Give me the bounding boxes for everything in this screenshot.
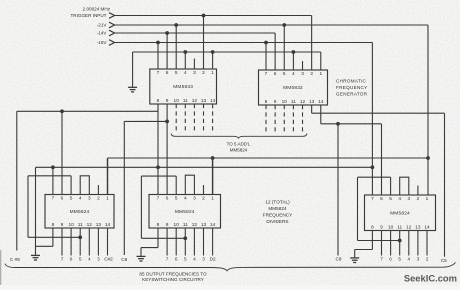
- wire U1 pin1 stub: [212, 52, 214, 69]
- wire U2 pin13 to C5 output: [311, 105, 313, 113]
- svg-text:12: 12: [406, 225, 412, 231]
- svg-text:6: 6: [380, 196, 383, 202]
- wire -16V rail: [115, 42, 373, 44]
- svg-text:6: 6: [166, 70, 169, 76]
- wire U3 pin5 loop to pin11: [70, 176, 72, 195]
- wire -14V rail: [115, 32, 276, 34]
- svg-text:9: 9: [274, 99, 277, 105]
- wire U2 pin12 dashed: [302, 105, 304, 133]
- wire U2 pin11 dashed: [292, 105, 294, 133]
- wire ground rail top: [133, 51, 321, 53]
- node U4 pin11 junction: [183, 236, 187, 240]
- wire U5 pin12 output: [408, 231, 410, 256]
- svg-text:C #8: C #8: [10, 257, 20, 262]
- wire U3 pin7 stub: [52, 167, 54, 194]
- wire -16V vertical drop to U5 pin7: [371, 43, 373, 196]
- node -21V to U1 pin5: [174, 23, 178, 27]
- svg-text:9: 9: [166, 98, 169, 104]
- svg-text:MM5824: MM5824: [268, 206, 287, 211]
- wire U5 pin11 output: [399, 231, 401, 256]
- wire U1 pin2 stub: [203, 16, 205, 70]
- svg-text:8: 8: [52, 222, 55, 228]
- wire U1 pin7 stub: [157, 43, 159, 70]
- svg-text:6: 6: [70, 256, 73, 261]
- svg-text:2: 2: [310, 71, 313, 77]
- wire U4 pin8 to ground: [157, 228, 159, 248]
- svg-text:5: 5: [398, 256, 401, 261]
- svg-text:2: 2: [202, 196, 205, 202]
- svg-text:7: 7: [157, 70, 160, 76]
- wire C8 right branch: [337, 124, 339, 256]
- svg-text:DIVIDERS: DIVIDERS: [266, 219, 288, 224]
- svg-text:12: 12: [192, 98, 198, 104]
- op-amp U4 MM5824 divider 2: [149, 195, 221, 229]
- svg-text:8: 8: [157, 98, 160, 104]
- svg-text:1: 1: [211, 70, 214, 76]
- wire gnd rail drop to ground G2: [35, 167, 37, 255]
- wire U5 pin9 output: [381, 231, 383, 256]
- svg-text:10: 10: [68, 222, 74, 228]
- wire U4 pin1 stub: [212, 158, 214, 195]
- wire U1 pin4 stub: [184, 52, 186, 69]
- svg-text:7: 7: [61, 256, 64, 261]
- wire U1 pin10 dashed: [175, 104, 177, 133]
- svg-text:4: 4: [184, 70, 187, 76]
- wire branch down to U3 pin6: [61, 111, 63, 194]
- svg-text:1: 1: [319, 71, 322, 77]
- svg-text:FREQUENCY: FREQUENCY: [263, 213, 293, 218]
- svg-text:-21V: -21V: [97, 23, 108, 28]
- node -14V to U1 pin6: [165, 31, 169, 35]
- svg-text:13: 13: [201, 222, 207, 228]
- wire U1 pin6 stub: [166, 33, 168, 69]
- svg-text:12: 12: [192, 222, 198, 228]
- svg-text:3: 3: [417, 256, 420, 261]
- wire U1 pin13 dashed: [203, 104, 205, 133]
- node rail to -21V drop: [426, 156, 430, 160]
- wire U3 pin13 output: [97, 228, 99, 256]
- svg-text:C8: C8: [336, 257, 342, 262]
- svg-text:11: 11: [183, 222, 188, 228]
- svg-text:7: 7: [380, 256, 383, 261]
- svg-text:4: 4: [292, 71, 295, 77]
- wire U2 pin10 dashed: [283, 105, 285, 133]
- svg-text:1: 1: [426, 196, 429, 202]
- svg-text:3: 3: [193, 70, 196, 76]
- op-amp U2 MM5832 chromatic generator: [259, 70, 328, 105]
- ground G2: [31, 254, 40, 256]
- svg-text:MM5824: MM5824: [175, 209, 195, 215]
- svg-text:2: 2: [426, 256, 429, 261]
- wire U4 pin14 output: [212, 228, 214, 256]
- svg-text:C#2: C#2: [104, 256, 113, 261]
- svg-text:6: 6: [389, 256, 392, 261]
- svg-text:4: 4: [193, 256, 196, 261]
- svg-text:12: 12: [87, 222, 93, 228]
- svg-text:10: 10: [174, 222, 180, 228]
- svg-text:FREQUENCY: FREQUENCY: [336, 85, 368, 90]
- wire U3 pin2 stub: [97, 185, 99, 195]
- wire ground rail bottom: [36, 166, 373, 168]
- wire TRIGGER rail: [115, 15, 312, 17]
- svg-text:8: 8: [265, 99, 268, 105]
- wire U3 pin12 output: [88, 228, 90, 256]
- svg-text:5: 5: [175, 196, 178, 202]
- node TRIGGER to U1 pin2: [202, 14, 206, 18]
- svg-text:SeekIC.com: SeekIC.com: [404, 273, 457, 284]
- svg-text:MM5832: MM5832: [283, 85, 303, 91]
- svg-text:MM5824: MM5824: [230, 148, 248, 153]
- wire U2 pin9 dashed: [274, 105, 276, 133]
- wire U4 pin4-pin3 jumper: [185, 175, 194, 194]
- ground G1: [132, 52, 134, 87]
- svg-text:CHROMATIC: CHROMATIC: [336, 79, 367, 84]
- svg-text:6: 6: [166, 196, 169, 202]
- svg-text:10: 10: [282, 99, 288, 105]
- node gnd to U1 pin4: [183, 50, 187, 54]
- svg-text:14: 14: [210, 98, 216, 104]
- svg-text:9: 9: [61, 222, 64, 228]
- node rail to U4 pin1: [211, 156, 215, 160]
- svg-text:7: 7: [157, 196, 160, 202]
- wire U5 pin10 output: [390, 231, 392, 256]
- svg-text:3: 3: [193, 196, 196, 202]
- svg-text:10: 10: [174, 98, 180, 104]
- wire U3 pin10 output: [70, 228, 72, 256]
- wire U4 pin9 output: [166, 228, 168, 256]
- svg-text:4: 4: [184, 196, 187, 202]
- wire U5 pin13 output: [417, 231, 419, 256]
- node gnd to U1 pin1: [211, 50, 215, 54]
- wire U2 pin14 to U5 pin6: [320, 105, 322, 124]
- svg-text:5: 5: [184, 256, 187, 261]
- svg-text:-14V: -14V: [97, 31, 108, 36]
- node gnd rail to U4 pin7: [156, 165, 160, 169]
- svg-text:MM5833: MM5833: [173, 84, 193, 90]
- svg-text:7: 7: [166, 256, 169, 261]
- wire U3 pin4-pin3 jumper: [80, 176, 89, 195]
- brace 85 output frequencies: [5, 262, 456, 270]
- svg-text:3: 3: [407, 196, 410, 202]
- svg-text:4: 4: [407, 256, 410, 261]
- wire U2 pin1 stub: [320, 52, 322, 70]
- svg-text:GENERATOR: GENERATOR: [336, 92, 368, 97]
- svg-text:2: 2: [202, 70, 205, 76]
- node gnd rail to -16V drop: [371, 165, 375, 169]
- wire U3 pin1 stub: [107, 158, 109, 195]
- wire U2 pin6 stub: [274, 33, 276, 70]
- wire U1 pin5 stub: [175, 25, 177, 69]
- wire U5 pin2 stub: [417, 186, 419, 196]
- svg-text:3: 3: [97, 256, 100, 261]
- svg-text:6: 6: [274, 71, 277, 77]
- node pin14 line to C8 branch: [336, 122, 340, 126]
- wire U2 pin3 stub: [302, 61, 304, 70]
- wire U5 pin5 loop to pin11: [390, 177, 392, 195]
- svg-text:13: 13: [415, 225, 421, 231]
- svg-text:MM5824: MM5824: [390, 210, 410, 216]
- svg-text:11: 11: [291, 99, 296, 105]
- node gnd rail to U3 pin7: [51, 165, 55, 169]
- svg-text:KEYSWITCHING CIRCUITRY: KEYSWITCHING CIRCUITRY: [142, 277, 204, 282]
- wire -21V rail: [115, 24, 428, 26]
- wire U5 pin8 to ground: [371, 231, 373, 250]
- svg-text:-16V: -16V: [97, 40, 108, 45]
- ground G3: [137, 255, 146, 257]
- svg-text:9: 9: [380, 225, 383, 231]
- svg-text:14: 14: [318, 99, 324, 105]
- node -16V to U2 pin7: [264, 41, 268, 45]
- svg-text:12 (TOTAL): 12 (TOTAL): [265, 200, 290, 205]
- wire U1 pin14 dashed: [212, 104, 214, 133]
- svg-text:5: 5: [389, 196, 392, 202]
- svg-text:14: 14: [105, 222, 111, 228]
- svg-text:14: 14: [210, 222, 216, 228]
- node -21V to U2 pin5: [282, 23, 286, 27]
- wire U2 pin7 stub: [265, 43, 267, 71]
- svg-text:85 OUTPUT FREQUENCIES TO: 85 OUTPUT FREQUENCIES TO: [139, 271, 207, 276]
- svg-text:2: 2: [417, 196, 420, 202]
- node pin9 to C8 branch: [165, 120, 169, 124]
- svg-text:14: 14: [424, 225, 430, 231]
- svg-text:12: 12: [300, 99, 306, 105]
- wire U5 pin4-pin3 jumper: [400, 177, 409, 195]
- wire U1 pin9 down to U4 pin6: [166, 104, 168, 195]
- wire U5 pin14 output: [426, 231, 428, 256]
- wire U2 pin5 stub: [283, 25, 285, 70]
- svg-text:13: 13: [201, 98, 207, 104]
- svg-text:11: 11: [397, 225, 402, 231]
- svg-text:7: 7: [371, 196, 374, 202]
- svg-text:1: 1: [211, 196, 214, 202]
- wire pin1 supply rail: [108, 157, 429, 159]
- svg-text:6: 6: [61, 196, 64, 202]
- wire C8 branch: [124, 120, 167, 122]
- wire U1 pin8 to C#8 bus: [157, 104, 159, 195]
- svg-text:7: 7: [52, 196, 55, 202]
- wire U4 pin11 output: [184, 228, 186, 256]
- op-amp U5 MM5824 divider 3: [365, 195, 436, 231]
- svg-text:2.00024 MHz: 2.00024 MHz: [83, 7, 111, 12]
- wire U3 pin14 output: [107, 228, 109, 256]
- svg-text:3: 3: [202, 256, 205, 261]
- svg-text:D2: D2: [210, 256, 216, 261]
- node gnd to U2 pin4: [291, 50, 295, 54]
- svg-text:1: 1: [106, 196, 109, 202]
- wire U4 pin13 output: [203, 228, 205, 256]
- svg-text:8: 8: [157, 222, 160, 228]
- svg-text:3: 3: [301, 71, 304, 77]
- svg-text:C8: C8: [121, 257, 127, 262]
- svg-text:5: 5: [175, 70, 178, 76]
- svg-text:4: 4: [398, 196, 401, 202]
- wire scan edge artifact: [0, 250, 2, 285]
- svg-text:5: 5: [283, 71, 286, 77]
- wire U2 pin8 dashed: [265, 105, 267, 133]
- svg-text:TRIGGER INPUT: TRIGGER INPUT: [71, 13, 107, 18]
- wire U4 pin2 stub: [203, 185, 205, 195]
- svg-text:MM5824: MM5824: [70, 209, 90, 215]
- svg-text:7: 7: [265, 71, 268, 77]
- svg-text:C5: C5: [441, 258, 447, 263]
- node -16V to U1 pin7: [156, 41, 160, 45]
- svg-text:4: 4: [88, 256, 91, 261]
- brace to 5 additional MM5824: [171, 134, 307, 139]
- wire U4 pin5 loop to pin11: [175, 176, 177, 194]
- node U5 pin11 junction: [398, 239, 402, 243]
- svg-text:6: 6: [175, 256, 178, 261]
- svg-text:3: 3: [88, 196, 91, 202]
- svg-text:11: 11: [183, 98, 188, 104]
- svg-text:5: 5: [79, 256, 82, 261]
- wire U1 pin12 dashed: [193, 104, 195, 133]
- ground G4: [350, 257, 359, 259]
- op-amp U3 MM5824 divider 1: [45, 195, 114, 229]
- svg-text:13: 13: [309, 99, 315, 105]
- wire U2 pin2 stub: [311, 16, 313, 71]
- op-amp U1 MM5833 chromatic generator: [150, 69, 217, 104]
- wire U2 pin4 stub: [292, 52, 294, 70]
- wire U3 pin8 to ground: [52, 228, 54, 246]
- svg-text:5: 5: [70, 196, 73, 202]
- svg-text:8: 8: [371, 225, 374, 231]
- svg-text:9: 9: [166, 222, 169, 228]
- svg-text:10: 10: [388, 225, 394, 231]
- node pin8 line to U3 pin6: [60, 109, 64, 113]
- svg-text:13: 13: [96, 222, 102, 228]
- wire U4 pin10 output: [175, 228, 177, 256]
- node U3 pin11 junction: [78, 235, 82, 239]
- svg-text:2: 2: [97, 196, 100, 202]
- wire -21V vertical drop to U5 pin1: [427, 25, 429, 195]
- svg-text:11: 11: [78, 222, 83, 228]
- wire U3 pin9 output: [61, 228, 63, 256]
- wire U1 pin3 stub: [193, 59, 195, 70]
- svg-text:4: 4: [79, 196, 82, 202]
- wire U3 pin11 output: [79, 228, 81, 256]
- wire U4 pin12 output: [193, 228, 195, 256]
- svg-text:TO 5 ADD'L: TO 5 ADD'L: [227, 142, 251, 147]
- wire U1 pin11 dashed: [184, 104, 186, 133]
